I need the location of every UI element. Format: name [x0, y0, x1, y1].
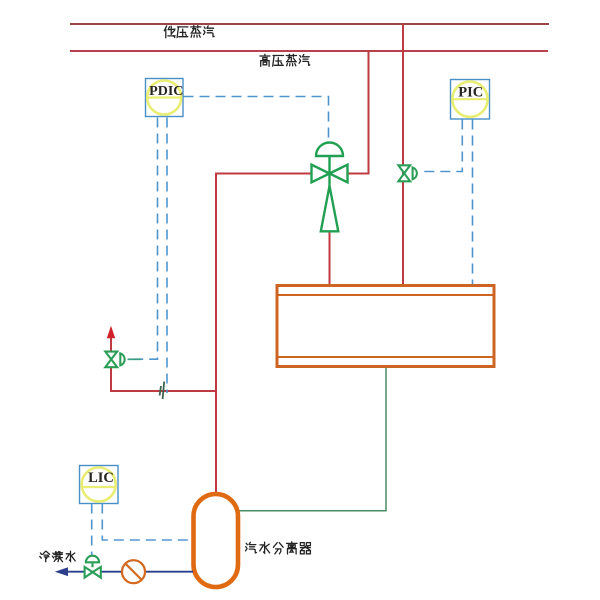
pipe: exchanger drain to separator (green)	[239, 368, 386, 511]
pipe: high pressure steam header	[70, 50, 548, 52]
wire: relief branch horizontal	[110, 390, 217, 392]
heat exchanger (orange jacketed box)	[277, 286, 494, 367]
signal: PIC to HP hand valve actuator (dashed)	[421, 120, 463, 172]
wire: PRV left port to separator riser	[215, 173, 312, 175]
condensate control valve (green, dome actuator)	[85, 556, 101, 578]
instrument PDIC	[146, 79, 184, 117]
svg-text:PDIC: PDIC	[149, 84, 183, 99]
control valve PV1 (pressure reducing, green)	[312, 143, 348, 232]
svg-text:PIC: PIC	[458, 85, 483, 101]
process tap break symbol	[160, 382, 165, 400]
signal: PDIC tap line 2 (to process break)	[166, 118, 168, 394]
wire: LP steam drop to exchanger at x=403	[402, 24, 404, 284]
signal: PIC tap to exchanger (dashed)	[472, 120, 474, 285]
label: 高压蒸汽 (high pressure steam)	[260, 54, 310, 66]
instrument LIC	[80, 466, 119, 504]
signal: LIC level tap to vessel (dashed)	[102, 504, 193, 541]
wire: HP steam drop to PRV at x=368	[368, 51, 370, 173]
condensate flow arrow (navy, left)	[55, 567, 68, 576]
vessel: steam-water separator (orange capsule)	[194, 494, 239, 587]
wire: PRV right port to HP drop	[347, 173, 370, 175]
wire: PRV bottom outlet down to exchanger	[329, 231, 331, 284]
signal: PDIC to PRV actuator (dashed)	[184, 97, 329, 143]
pipe: condensate line (navy)	[68, 571, 194, 573]
hand valve on HP drop (green)	[398, 165, 416, 181]
label: 低压蒸汽 (low pressure steam)	[164, 26, 214, 38]
relief valve (green, with diaphragm D)	[105, 352, 141, 368]
label: 冷凝水 (condensate)	[40, 551, 75, 561]
vent arrow (red, up)	[107, 326, 115, 338]
label: 汽水分离器 (steam-water separator)	[246, 542, 311, 554]
svg-text:LIC: LIC	[88, 470, 114, 486]
wire: relief vertical through valve	[110, 338, 112, 393]
pump (orange circle with diagonal)	[122, 560, 145, 583]
signal: PDIC tap line 1 (to relief valve actuator)	[134, 118, 158, 360]
wire: separator riser x=216 down to vessel	[215, 173, 217, 495]
instrument PIC	[451, 80, 490, 120]
pipe: low pressure steam header	[70, 23, 549, 25]
signal: LIC to condensate valve (dashed)	[91, 504, 93, 557]
